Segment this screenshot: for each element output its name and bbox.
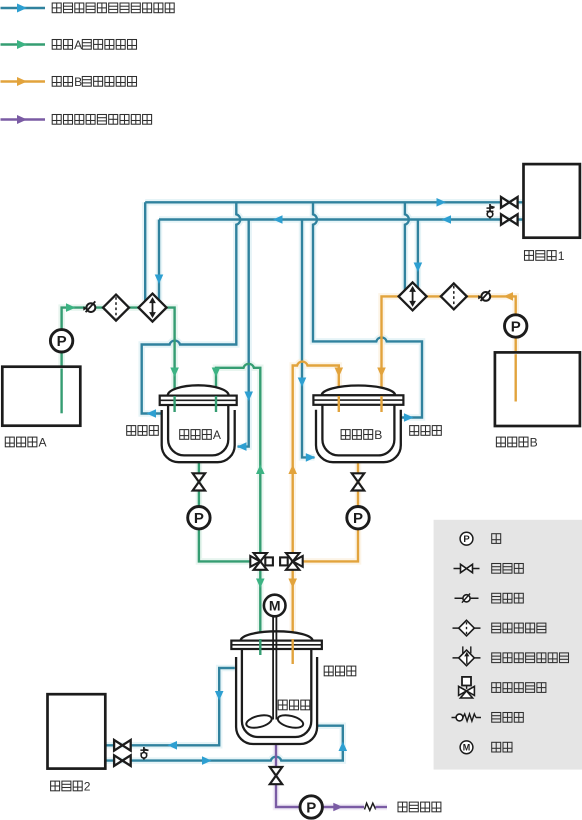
svg-text:P: P bbox=[511, 318, 521, 335]
svg-text:A: A bbox=[74, 38, 83, 52]
svg-text:B: B bbox=[74, 75, 82, 89]
svg-text:1: 1 bbox=[558, 249, 565, 263]
svg-text:M: M bbox=[269, 598, 281, 614]
svg-text:P: P bbox=[306, 799, 316, 816]
svg-text:P: P bbox=[353, 510, 363, 527]
svg-text:B: B bbox=[374, 428, 382, 442]
svg-text:M: M bbox=[463, 743, 471, 753]
svg-text:P: P bbox=[463, 534, 470, 545]
svg-text:B: B bbox=[530, 436, 538, 450]
svg-text:A: A bbox=[213, 428, 222, 442]
svg-text:2: 2 bbox=[84, 780, 91, 794]
svg-text:A: A bbox=[39, 436, 48, 450]
svg-text:P: P bbox=[194, 510, 204, 527]
svg-text:P: P bbox=[57, 333, 67, 350]
